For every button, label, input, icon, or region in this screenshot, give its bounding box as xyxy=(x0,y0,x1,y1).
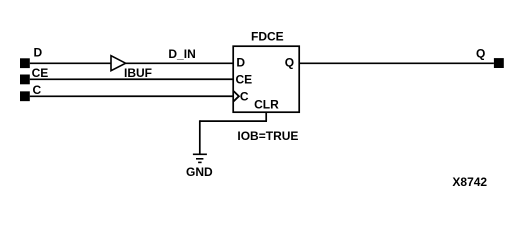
wire C pad to FDCE xyxy=(30,95,234,97)
svg-text:IBUF: IBUF xyxy=(124,66,152,80)
ground symbol xyxy=(193,153,207,155)
wire D pad to IBUF xyxy=(30,62,111,64)
input pad CE xyxy=(20,75,30,85)
wire CLR horizontal xyxy=(200,120,267,122)
svg-text:Q: Q xyxy=(476,47,485,61)
clock wedge xyxy=(234,91,239,101)
flip-flop FDCE body xyxy=(233,46,299,112)
svg-text:CLR: CLR xyxy=(254,97,279,111)
svg-text:D: D xyxy=(236,56,245,70)
svg-text:FDCE: FDCE xyxy=(251,30,284,44)
svg-text:C: C xyxy=(240,90,249,104)
wire down to ground xyxy=(199,120,201,154)
wire CLR down from box xyxy=(265,112,267,121)
svg-text:Q: Q xyxy=(285,56,294,70)
input pad D xyxy=(20,58,30,68)
svg-text:GND: GND xyxy=(186,165,213,179)
svg-text:CE: CE xyxy=(32,66,49,80)
svg-text:X8742: X8742 xyxy=(452,175,487,189)
wire FDCE Q to output pad xyxy=(299,62,494,64)
wire IBUF to FDCE D xyxy=(126,62,234,64)
svg-text:IOB=TRUE: IOB=TRUE xyxy=(237,129,298,143)
output pad Q xyxy=(494,58,504,68)
svg-text:C: C xyxy=(33,83,42,97)
svg-text:D: D xyxy=(34,46,43,60)
svg-text:CE: CE xyxy=(236,72,253,86)
wire CE pad to FDCE xyxy=(30,78,234,80)
buffer IBUF xyxy=(111,56,126,71)
input pad C xyxy=(20,91,30,101)
svg-text:D_IN: D_IN xyxy=(168,47,195,61)
